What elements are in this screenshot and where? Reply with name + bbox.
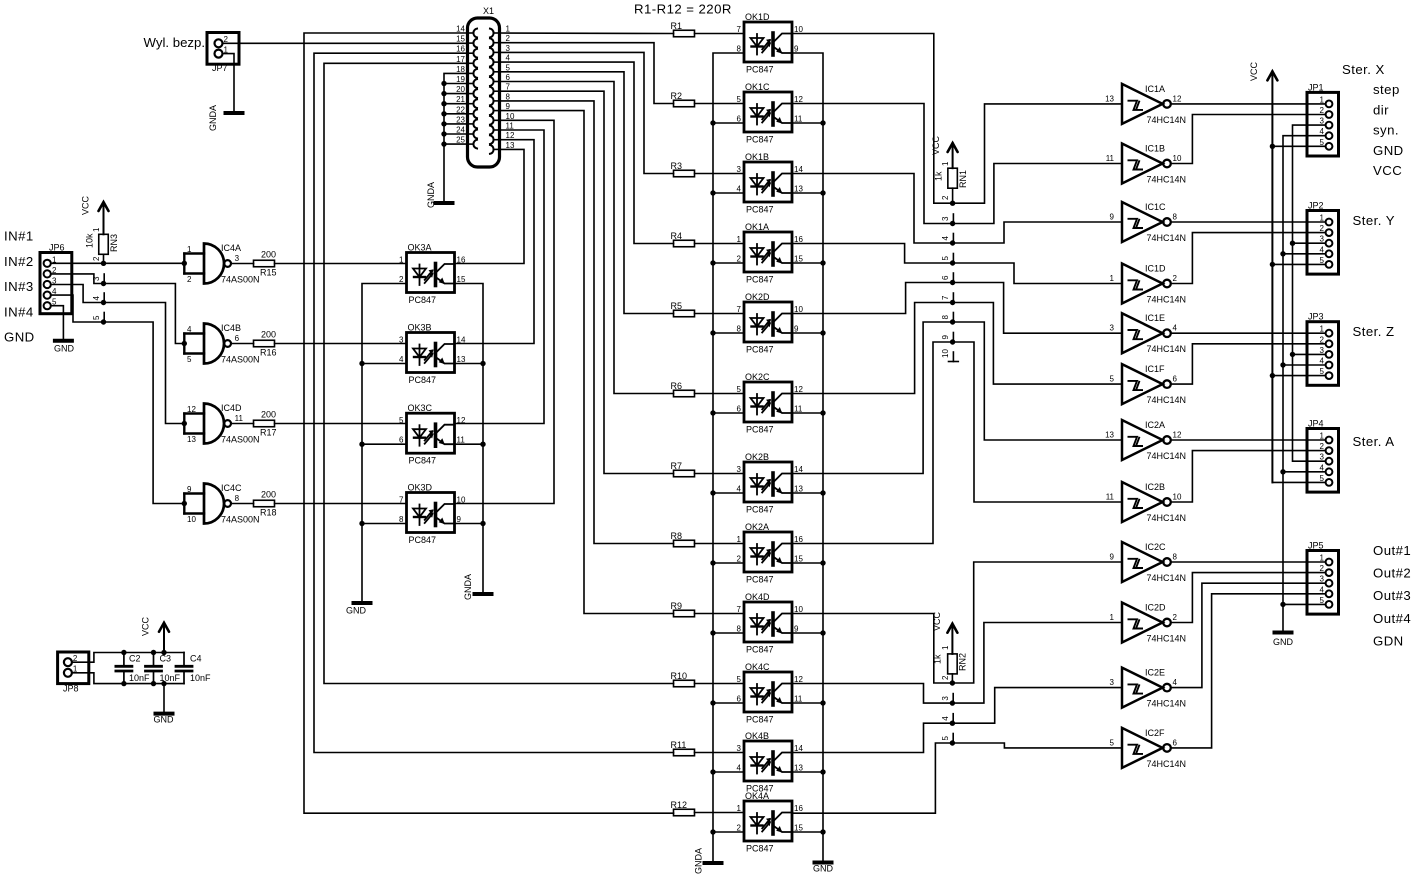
svg-text:4: 4 xyxy=(737,485,742,494)
junction GND bus xyxy=(1280,251,1285,256)
junction OK3 emitter xyxy=(480,361,485,366)
RN2 pin 5 stub xyxy=(952,734,954,744)
svg-text:1: 1 xyxy=(737,804,742,813)
wire IC2E to JP5.3 xyxy=(1171,583,1326,687)
junction RN pull-up tap (OK2A) xyxy=(950,339,955,344)
wire X1.14 to R12 xyxy=(304,33,674,813)
wire OK1A emitter stub xyxy=(792,262,823,264)
svg-text:1: 1 xyxy=(1110,613,1115,622)
svg-text:3: 3 xyxy=(1320,235,1325,244)
svg-text:PC847: PC847 xyxy=(746,645,774,655)
wire X1.20 stub xyxy=(444,93,467,95)
inverter IC2E (74HC14N) xyxy=(1110,668,1186,709)
wire R to OK3 input xyxy=(275,503,407,505)
svg-text:3: 3 xyxy=(1320,117,1325,126)
svg-text:20: 20 xyxy=(456,85,465,94)
svg-text:16: 16 xyxy=(457,256,466,265)
svg-text:12: 12 xyxy=(1173,94,1182,103)
svg-text:10nF: 10nF xyxy=(129,673,150,683)
junction RN pull-up tap (OK1C) xyxy=(950,221,955,226)
svg-text:5: 5 xyxy=(737,95,742,104)
svg-text:R4: R4 xyxy=(671,231,683,241)
wire IC1E to JP3.1 xyxy=(1171,332,1326,334)
wire X1.2 to R2 xyxy=(500,43,674,104)
svg-text:1: 1 xyxy=(1320,325,1325,334)
svg-text:16: 16 xyxy=(456,45,465,54)
resistor network RN2 xyxy=(948,654,958,674)
wire OK2A output to IC2B input xyxy=(792,342,1122,544)
connector JP3 xyxy=(1307,312,1339,386)
wire OK3 cathode bus xyxy=(362,284,407,604)
svg-text:PC847: PC847 xyxy=(746,575,774,585)
wire OK3 emitter stub xyxy=(455,363,484,365)
svg-text:1: 1 xyxy=(737,235,742,244)
svg-text:VCC: VCC xyxy=(1373,163,1402,178)
svg-text:74AS00N: 74AS00N xyxy=(221,275,260,285)
svg-text:4: 4 xyxy=(399,355,404,364)
svg-text:4: 4 xyxy=(1320,585,1325,594)
svg-text:X1: X1 xyxy=(483,6,494,16)
inverter IC1A (74HC14N) xyxy=(1105,84,1186,125)
wire X1.7 to R7 xyxy=(500,91,674,473)
svg-text:6: 6 xyxy=(1173,738,1178,747)
svg-text:2: 2 xyxy=(506,34,511,43)
svg-text:OK1C: OK1C xyxy=(745,82,770,92)
svg-text:C3: C3 xyxy=(160,653,172,663)
svg-text:C2: C2 xyxy=(129,653,141,663)
svg-text:8: 8 xyxy=(941,315,950,320)
wire OK4C cathode stub xyxy=(713,702,744,704)
wire IC2F to JP5.4 xyxy=(1171,594,1326,748)
junction emitter OK4C xyxy=(820,700,825,705)
junction IC4C input xyxy=(182,501,187,506)
svg-text:R18: R18 xyxy=(260,508,277,518)
svg-text:16: 16 xyxy=(794,235,803,244)
svg-text:PC847: PC847 xyxy=(409,375,437,385)
svg-text:R1-R12 = 220R: R1-R12 = 220R xyxy=(634,2,732,17)
svg-text:6: 6 xyxy=(1173,375,1178,384)
svg-text:RN2: RN2 xyxy=(958,653,968,671)
svg-text:IC2A: IC2A xyxy=(1145,420,1165,430)
wire OK1D output to IC1A input xyxy=(792,34,1122,204)
junction RN pull-up tap (OK4C) xyxy=(950,700,955,705)
svg-text:10: 10 xyxy=(187,515,196,524)
svg-text:3: 3 xyxy=(1320,575,1325,584)
wire OK1B cathode stub xyxy=(713,192,744,194)
svg-text:5: 5 xyxy=(941,736,950,741)
wire IC2A to JP4.1 xyxy=(1171,439,1326,441)
svg-text:GND: GND xyxy=(4,330,35,345)
svg-text:17: 17 xyxy=(456,55,465,64)
svg-text:10: 10 xyxy=(1173,493,1182,502)
svg-text:10: 10 xyxy=(457,496,466,505)
inverter IC2F (74HC14N) xyxy=(1110,728,1186,769)
svg-text:9: 9 xyxy=(794,325,799,334)
svg-text:Ster. Z: Ster. Z xyxy=(1353,324,1395,339)
svg-text:C4: C4 xyxy=(190,653,202,663)
svg-text:9: 9 xyxy=(794,45,799,54)
svg-text:13: 13 xyxy=(794,764,803,773)
svg-text:74HC14N: 74HC14N xyxy=(1147,175,1187,185)
svg-text:12: 12 xyxy=(457,416,466,425)
svg-text:10: 10 xyxy=(794,25,803,34)
junction GND bus xyxy=(1280,469,1285,474)
svg-text:5: 5 xyxy=(941,256,950,261)
svg-text:7: 7 xyxy=(506,83,511,92)
svg-text:R16: R16 xyxy=(260,348,277,358)
svg-text:4: 4 xyxy=(1173,678,1178,687)
svg-text:14: 14 xyxy=(794,465,803,474)
junction IC4B input xyxy=(182,341,187,346)
nand gate IC4B xyxy=(184,323,259,365)
capacitor C2 xyxy=(116,653,150,684)
wire OK1C cathode stub xyxy=(713,122,744,124)
ground GNDA (X1) xyxy=(436,201,453,205)
junction cathode OK2B xyxy=(710,490,715,495)
svg-text:PC847: PC847 xyxy=(746,205,774,215)
svg-text:JP3: JP3 xyxy=(1308,312,1324,322)
junction emitter OK2C xyxy=(820,410,825,415)
junction GND rail xyxy=(161,681,166,686)
wire IN#2 net (JP6.2 to IC4B) xyxy=(51,274,185,344)
svg-text:1: 1 xyxy=(941,161,950,166)
svg-text:1: 1 xyxy=(1320,554,1325,563)
capacitor C3 xyxy=(146,653,181,684)
svg-text:3: 3 xyxy=(941,216,950,221)
wire R1 to opto xyxy=(695,33,745,35)
svg-text:2: 2 xyxy=(92,256,101,261)
wire IC1D to JP2.2 xyxy=(1171,233,1326,284)
capacitor C4 xyxy=(176,653,211,684)
optocoupler OK4A xyxy=(737,791,804,854)
power VCC (JP bus) xyxy=(1267,71,1277,80)
svg-text:4: 4 xyxy=(506,54,511,63)
svg-text:JP6: JP6 xyxy=(49,243,65,253)
wire X1.19 stub xyxy=(444,83,467,85)
junction VCC rail xyxy=(161,650,166,655)
junction OK3 cathode xyxy=(359,521,364,526)
svg-text:5: 5 xyxy=(1320,596,1325,605)
svg-text:12: 12 xyxy=(187,405,196,414)
junction emitter OK1B xyxy=(820,190,825,195)
svg-text:11: 11 xyxy=(794,115,803,124)
wire OK3 emitter stub xyxy=(455,523,484,525)
wire opto LED cathode bus xyxy=(713,53,744,863)
svg-text:3: 3 xyxy=(1110,678,1115,687)
svg-text:IN#1: IN#1 xyxy=(4,229,34,244)
svg-text:Wyl. bezp.: Wyl. bezp. xyxy=(144,35,205,50)
svg-text:8: 8 xyxy=(235,494,240,503)
svg-text:200: 200 xyxy=(261,250,276,260)
connector JP2 xyxy=(1307,201,1339,275)
optocoupler OK2D xyxy=(737,292,804,355)
svg-text:R11: R11 xyxy=(671,740,687,750)
svg-text:5: 5 xyxy=(1320,474,1325,483)
wire OK4B cathode stub xyxy=(713,771,744,773)
svg-text:6: 6 xyxy=(737,695,742,704)
wire IC1F to JP3.2 xyxy=(1171,344,1326,384)
svg-text:2: 2 xyxy=(1320,335,1325,344)
resistor R15 xyxy=(231,250,277,278)
wire OK4B output to IC2E input xyxy=(792,688,1122,753)
svg-text:Out#2: Out#2 xyxy=(1373,566,1411,581)
RN1 pin 7 stub xyxy=(952,293,954,303)
svg-text:1: 1 xyxy=(399,256,404,265)
RN1 pin 3 stub xyxy=(952,214,954,224)
inverter IC2A (74HC14N) xyxy=(1105,420,1186,461)
svg-text:15: 15 xyxy=(794,555,803,564)
svg-text:4: 4 xyxy=(737,185,742,194)
wire X1.17 to R10 xyxy=(324,63,674,683)
svg-text:1: 1 xyxy=(1320,95,1325,104)
wire R9 to opto xyxy=(695,613,745,615)
svg-text:9: 9 xyxy=(1110,213,1115,222)
junction cathode OK4D xyxy=(710,630,715,635)
svg-text:JP2: JP2 xyxy=(1308,201,1324,211)
junction C3 rails xyxy=(151,650,156,655)
svg-text:14: 14 xyxy=(794,744,803,753)
svg-text:74HC14N: 74HC14N xyxy=(1147,344,1187,354)
svg-text:R12: R12 xyxy=(671,800,688,810)
wire JP8 to cap rails xyxy=(72,653,184,663)
junction RN pull-up tap (OK4B) xyxy=(950,721,955,726)
svg-text:GND: GND xyxy=(154,715,175,725)
svg-text:74HC14N: 74HC14N xyxy=(1147,759,1187,769)
svg-text:IC2C: IC2C xyxy=(1145,542,1166,552)
optocoupler OK1D xyxy=(737,12,804,75)
svg-text:IC4A: IC4A xyxy=(221,243,241,253)
svg-text:74HC14N: 74HC14N xyxy=(1147,634,1187,644)
svg-text:15: 15 xyxy=(457,275,466,284)
svg-text:GNDA: GNDA xyxy=(463,574,473,600)
svg-text:R2: R2 xyxy=(671,91,683,101)
wire IC2B to JP4.2 xyxy=(1171,451,1326,502)
wire R4 to opto xyxy=(695,243,745,245)
svg-text:R3: R3 xyxy=(671,161,683,171)
junction RN pull-up tap (OK4A) xyxy=(950,740,955,745)
wire JP7.2 to X1.15 xyxy=(223,42,468,44)
RN1 pin 4 stub xyxy=(952,234,954,244)
RN3 pin 3 stub xyxy=(103,274,105,284)
svg-text:12: 12 xyxy=(794,675,803,684)
svg-text:JP4: JP4 xyxy=(1308,419,1324,429)
svg-text:8: 8 xyxy=(737,45,742,54)
wire X1.16 to R11 xyxy=(314,53,674,752)
svg-text:IC2F: IC2F xyxy=(1145,728,1165,738)
svg-text:5: 5 xyxy=(187,355,192,364)
wire OK2C output to IC1F input xyxy=(792,303,1122,394)
ground GND (OK3) xyxy=(354,601,371,605)
wire OK1A output to IC1D input xyxy=(792,244,1122,284)
svg-text:OK1D: OK1D xyxy=(745,12,770,22)
power VCC (RN3) xyxy=(99,202,109,211)
svg-text:GNDA: GNDA xyxy=(426,182,436,208)
junction RN3.3 xyxy=(101,281,106,286)
svg-text:5: 5 xyxy=(737,675,742,684)
svg-text:10: 10 xyxy=(794,605,803,614)
svg-text:10k: 10k xyxy=(85,233,95,248)
junction syn bus xyxy=(1290,352,1295,357)
svg-text:IC4C: IC4C xyxy=(221,483,242,493)
junction syn bus xyxy=(1290,241,1295,246)
RN2 pin 4 stub xyxy=(952,714,954,724)
optocoupler OK1B xyxy=(737,152,804,215)
junction RN pull-up tap (OK1B) xyxy=(950,240,955,245)
wire IC1A to JP1.1 xyxy=(1171,103,1326,105)
svg-text:8: 8 xyxy=(1173,553,1178,562)
svg-text:74AS00N: 74AS00N xyxy=(221,435,260,445)
wire IN#4 net (JP6.4 to IC4C) xyxy=(51,295,185,503)
svg-text:74HC14N: 74HC14N xyxy=(1147,233,1187,243)
svg-text:IN#3: IN#3 xyxy=(4,279,34,294)
inverter IC2C (74HC14N) xyxy=(1110,542,1186,583)
svg-text:8: 8 xyxy=(399,515,404,524)
svg-text:Ster. A: Ster. A xyxy=(1353,434,1395,449)
wire OK2A cathode stub xyxy=(713,562,744,564)
svg-text:R7: R7 xyxy=(671,461,683,471)
svg-text:15: 15 xyxy=(794,255,803,264)
svg-text:4: 4 xyxy=(1320,357,1325,366)
svg-text:74HC14N: 74HC14N xyxy=(1147,295,1187,305)
wire OK4C output to IC2D input xyxy=(792,623,1122,704)
junction emitter OK2A xyxy=(820,560,825,565)
wire X1.24 stub xyxy=(444,133,467,135)
svg-text:11: 11 xyxy=(794,695,803,704)
wire OK2B output to IC2A input xyxy=(792,322,1122,474)
wire R3 to opto xyxy=(695,173,745,175)
junction RN3.2 xyxy=(101,261,106,266)
svg-text:PC847: PC847 xyxy=(746,715,774,725)
ground GND (opto bus) xyxy=(815,861,832,865)
svg-text:Out#1: Out#1 xyxy=(1373,543,1411,558)
svg-text:OK4D: OK4D xyxy=(745,592,770,602)
svg-text:13: 13 xyxy=(1105,94,1114,103)
svg-text:OK3B: OK3B xyxy=(408,323,432,333)
optocoupler OK3C xyxy=(399,403,466,466)
svg-text:1k: 1k xyxy=(933,654,943,664)
svg-text:12: 12 xyxy=(794,95,803,104)
wire X1.12 to OK3 output xyxy=(455,140,535,344)
wire OK2C cathode stub xyxy=(713,412,744,414)
ground GND (JP6) xyxy=(55,339,72,343)
svg-text:4: 4 xyxy=(187,325,192,334)
svg-text:1: 1 xyxy=(1320,432,1325,441)
wire X1.8 to R8 xyxy=(500,101,674,544)
wire OK3 cathode stub xyxy=(362,363,407,365)
svg-text:11: 11 xyxy=(1106,154,1115,163)
svg-text:2: 2 xyxy=(1320,106,1325,115)
wire R11 to opto xyxy=(695,752,745,754)
svg-text:OK3A: OK3A xyxy=(408,243,432,253)
wire R to OK3 input xyxy=(275,423,407,425)
wire R to OK3 input xyxy=(275,263,407,265)
RN3 pin 5 stub xyxy=(103,313,105,323)
svg-text:15: 15 xyxy=(794,824,803,833)
junction VCC bus xyxy=(1270,373,1275,378)
svg-text:OK3D: OK3D xyxy=(408,483,433,493)
svg-text:GND: GND xyxy=(1273,637,1294,647)
junction VCC bus xyxy=(1270,262,1275,267)
svg-text:PC847: PC847 xyxy=(746,135,774,145)
svg-text:IC2D: IC2D xyxy=(1145,603,1166,613)
svg-text:4: 4 xyxy=(1320,245,1325,254)
wire X1.4 to R4 xyxy=(500,62,674,243)
wire OK4B emitter stub xyxy=(792,771,823,773)
connector JP7 (Wyl. bezp.) xyxy=(207,33,239,74)
connector X1 (DB25) xyxy=(456,6,515,167)
wire X1.1 to R1 xyxy=(500,32,674,35)
svg-text:10: 10 xyxy=(506,112,515,121)
svg-text:1: 1 xyxy=(187,245,192,254)
svg-text:200: 200 xyxy=(261,330,276,340)
svg-text:74HC14N: 74HC14N xyxy=(1147,513,1187,523)
svg-text:12: 12 xyxy=(794,385,803,394)
junction RN pull-up tap (OK1A) xyxy=(950,260,955,265)
power VCC (caps) xyxy=(159,623,169,632)
wire R12 to opto xyxy=(695,812,745,814)
svg-text:PC847: PC847 xyxy=(409,535,437,545)
junction RN3.4 xyxy=(101,300,106,305)
junction emitter OK4D xyxy=(820,630,825,635)
junction OK3 cathode xyxy=(359,361,364,366)
svg-text:5: 5 xyxy=(506,63,511,72)
svg-text:Ster. Y: Ster. Y xyxy=(1353,213,1396,228)
svg-text:R10: R10 xyxy=(671,671,688,681)
wire OK3 cathode stub xyxy=(362,443,407,445)
svg-text:9: 9 xyxy=(1110,553,1115,562)
svg-text:7: 7 xyxy=(737,305,742,314)
svg-text:VCC: VCC xyxy=(932,611,942,631)
wire OK2B emitter stub xyxy=(792,492,823,494)
svg-text:OK1B: OK1B xyxy=(745,152,769,162)
svg-text:R1: R1 xyxy=(671,21,683,31)
svg-text:6: 6 xyxy=(737,115,742,124)
svg-text:9: 9 xyxy=(457,515,462,524)
optocoupler OK1C xyxy=(737,82,804,145)
resistor network RN3 xyxy=(99,234,109,254)
junction X1.24 xyxy=(441,131,446,136)
wire R10 to opto xyxy=(695,683,745,685)
svg-text:200: 200 xyxy=(261,490,276,500)
wire JP7.1 to ground xyxy=(223,54,235,113)
svg-text:6: 6 xyxy=(941,275,950,280)
junction RN pull-up tap (OK1D) xyxy=(950,201,955,206)
svg-text:10: 10 xyxy=(794,305,803,314)
svg-text:12: 12 xyxy=(1173,431,1182,440)
junction GND bus xyxy=(1280,362,1285,367)
svg-text:OK2A: OK2A xyxy=(745,522,769,532)
svg-text:13: 13 xyxy=(1105,431,1114,440)
wire X1 pins 18-25 ground bus xyxy=(444,73,467,203)
svg-text:Ster. X: Ster. X xyxy=(1342,62,1385,77)
wire OK4D cathode stub xyxy=(713,632,744,634)
svg-text:OK1A: OK1A xyxy=(745,222,769,232)
svg-text:74HC14N: 74HC14N xyxy=(1147,395,1187,405)
junction emitter OK1C xyxy=(820,120,825,125)
svg-text:8: 8 xyxy=(737,625,742,634)
wire OK1B output to IC1C input xyxy=(792,174,1122,244)
svg-text:IC2B: IC2B xyxy=(1145,482,1165,492)
svg-text:9: 9 xyxy=(506,102,511,111)
svg-text:R9: R9 xyxy=(671,601,683,611)
svg-text:25: 25 xyxy=(456,136,465,145)
wire OK1A cathode stub xyxy=(713,262,744,264)
junction cathode OK1C xyxy=(710,120,715,125)
wire IC1B to JP1.2 xyxy=(1171,115,1326,164)
nand gate IC4D xyxy=(184,403,259,445)
svg-text:9: 9 xyxy=(794,625,799,634)
wire caps to ground xyxy=(163,684,165,714)
